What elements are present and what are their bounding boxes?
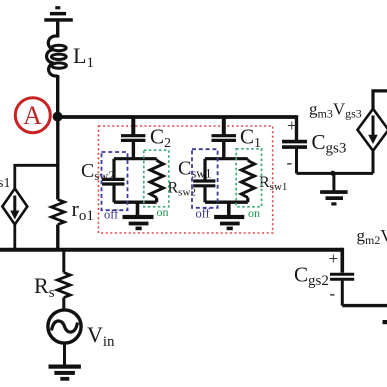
- ground mark (bottom right, clipped): [383, 320, 387, 324]
- capacitor Cgs3: [282, 142, 307, 148]
- wire L1 to node A: [56, 75, 59, 117]
- current source gm3Vgs3: [358, 109, 387, 151]
- wire branch top (sw1): [205, 157, 248, 160]
- svg-text:off: off: [196, 207, 211, 221]
- wire main horizontal from node A: [58, 115, 297, 119]
- ground (below Vin): [49, 365, 81, 381]
- wire rail to Cgs2: [340, 248, 344, 273]
- ground (gs3): [320, 190, 348, 205]
- off box (Csw1, blue dashed): [192, 149, 218, 208]
- wire branch top (sw2): [114, 157, 157, 160]
- off box (Csw2, blue dashed): [102, 152, 128, 210]
- wire Vin to ground: [63, 343, 66, 365]
- wire right branch upper (sw1): [246, 159, 249, 161]
- wire branch bottom (sw1): [205, 200, 248, 203]
- wire C2 to branch node: [132, 142, 135, 159]
- capacitor Cgs2: [330, 274, 354, 279]
- on box (Rsw2, green dashed): [144, 150, 169, 207]
- wire stub main to C1: [222, 117, 226, 135]
- resistor Rsw1: [241, 161, 254, 198]
- wire bottom node horizontal (gs3): [297, 172, 374, 175]
- svg-text:off: off: [104, 208, 119, 222]
- wire left branch upper (sw1): [203, 159, 206, 180]
- wire to ground (sw2): [136, 202, 140, 215]
- svg-text:A: A: [23, 101, 42, 130]
- wire right branch lower (sw1): [246, 198, 249, 203]
- on box (Rsw1, green dashed): [236, 149, 261, 207]
- wire right branch upper (sw2): [155, 159, 158, 161]
- node A marker: [15, 98, 50, 133]
- svg-text:on: on: [157, 205, 169, 219]
- resistor Rsw2: [150, 161, 163, 198]
- wire supply to L1: [56, 22, 59, 38]
- wire gm3 top to right edge: [371, 91, 387, 109]
- wire left branch upper (sw2): [112, 159, 115, 178]
- wire branch bottom (sw2): [114, 200, 157, 203]
- wire tap to gm1 source: [15, 165, 58, 189]
- ground (sw2): [123, 215, 154, 230]
- ground (sw1): [214, 215, 244, 230]
- source Vin: [48, 310, 81, 343]
- capacitor C1: [212, 136, 237, 141]
- svg-text:s1: s1: [0, 176, 10, 191]
- wire Cgs3 to bottom node: [295, 149, 298, 174]
- svg-text:on: on: [248, 206, 260, 220]
- wire Cgs2 to bottom horizontal: [341, 281, 344, 306]
- svg-text:+: +: [329, 249, 339, 268]
- bottom rail wire: [0, 248, 343, 252]
- supply rail symbol (top): [44, 6, 73, 22]
- capacitor C2: [121, 136, 145, 141]
- wire bottom horizontal (gs2): [342, 304, 387, 307]
- wire node A down through ro1 branch: [56, 117, 59, 200]
- wire left branch lower (sw1): [203, 187, 206, 202]
- resistor ro1: [51, 200, 64, 225]
- switch network boundary box (red dotted): [99, 126, 273, 233]
- wire gm3 bottom to node: [372, 151, 375, 174]
- svg-text:+: +: [287, 116, 297, 135]
- inductor L1: [47, 36, 67, 76]
- wire right branch lower (sw2): [155, 198, 158, 203]
- wire main to Cgs3: [295, 115, 298, 140]
- junction dot at node A: [53, 112, 63, 122]
- wire to ground (sw1): [227, 202, 231, 215]
- wire left branch lower (sw2): [112, 186, 115, 203]
- current source gm1Vgs1: [2, 189, 27, 225]
- junction dot (gs3 ground): [330, 171, 335, 176]
- resistor Rs: [57, 273, 70, 298]
- wire to ground (gs3): [332, 173, 335, 190]
- wire rail to Rs: [62, 250, 65, 273]
- svg-text:-: -: [287, 153, 293, 172]
- wire Rs to Vin: [62, 298, 65, 311]
- wire gm1 to bottom rail: [13, 225, 16, 251]
- wire C1 to branch node: [222, 142, 225, 159]
- wire stub main to C2: [131, 117, 135, 135]
- wire ro1 to bottom rail: [56, 225, 59, 251]
- svg-text:-: -: [330, 284, 336, 303]
- capacitor Csw2: [102, 179, 125, 184]
- capacitor Csw1: [193, 181, 215, 186]
